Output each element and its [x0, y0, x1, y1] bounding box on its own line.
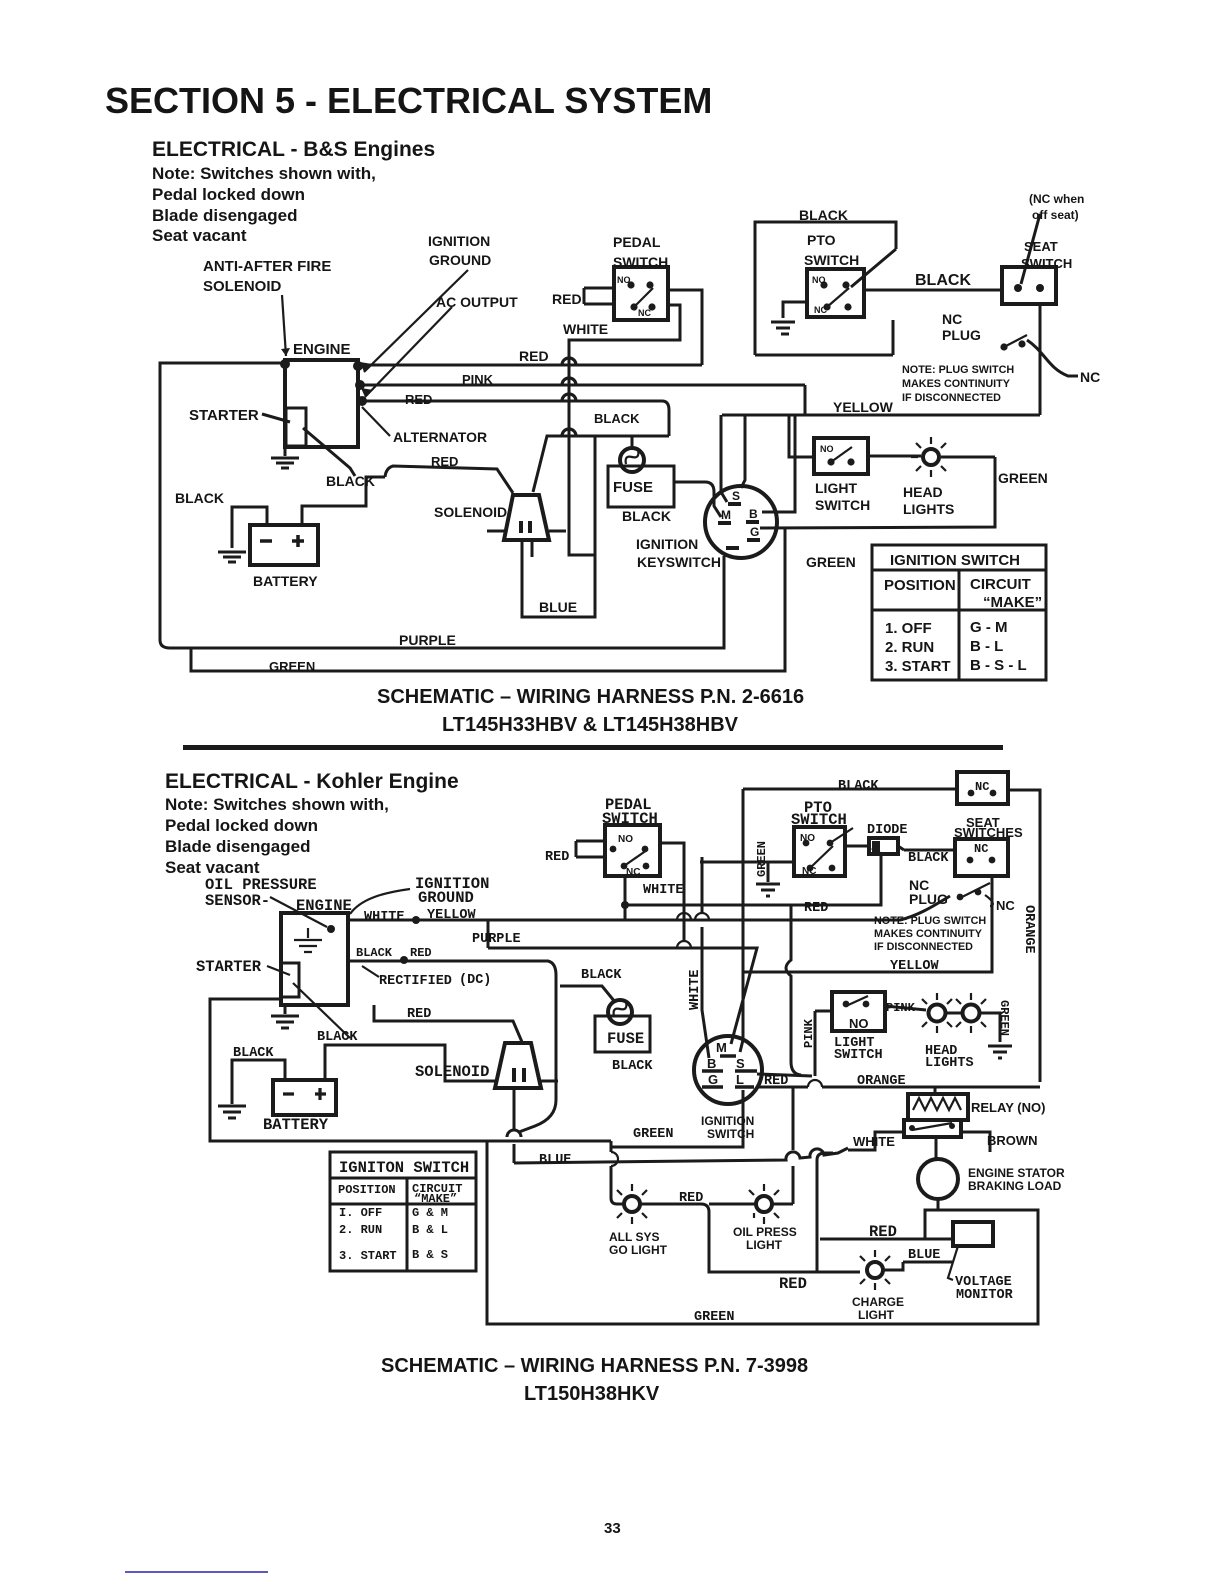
svg-text:KEYSWITCH: KEYSWITCH [637, 554, 721, 570]
svg-text:ORANGE: ORANGE [1021, 905, 1036, 954]
svg-text:GREEN: GREEN [755, 841, 769, 877]
svg-text:PINK: PINK [802, 1018, 816, 1048]
svg-text:RECTIFIED: RECTIFIED [379, 974, 452, 989]
svg-text:NC: NC [638, 308, 651, 318]
svg-text:LIGHTS: LIGHTS [925, 1056, 974, 1071]
svg-text:FUSE: FUSE [613, 479, 653, 496]
svg-text:WHITE: WHITE [563, 321, 608, 337]
svg-text:LT145H33HBV & LT145H38HBV: LT145H33HBV & LT145H38HBV [442, 714, 739, 736]
svg-text:B - S - L: B - S - L [970, 657, 1027, 674]
svg-text:SEAT: SEAT [1024, 239, 1058, 254]
svg-text:LIGHT: LIGHT [815, 480, 857, 496]
svg-text:AC OUTPUT: AC OUTPUT [436, 294, 518, 310]
svg-text:BLACK: BLACK [838, 779, 879, 794]
svg-text:IGNITION SWITCH: IGNITION SWITCH [890, 552, 1020, 569]
svg-text:NO: NO [812, 275, 826, 285]
svg-text:LIGHT: LIGHT [746, 1238, 783, 1252]
svg-text:S: S [732, 489, 740, 503]
svg-text:G: G [708, 1072, 718, 1087]
svg-text:MAKES CONTINUITY: MAKES CONTINUITY [902, 378, 1011, 390]
svg-text:BLACK: BLACK [233, 1046, 274, 1061]
svg-text:Pedal locked down: Pedal locked down [165, 816, 318, 835]
svg-text:NO: NO [849, 1016, 869, 1031]
svg-text:FUSE: FUSE [607, 1030, 644, 1048]
svg-text:NC: NC [975, 780, 989, 794]
svg-text:SWITCH: SWITCH [613, 254, 668, 270]
svg-text:BLACK: BLACK [908, 851, 949, 866]
svg-text:RED: RED [552, 291, 582, 307]
svg-text:BLACK: BLACK [594, 411, 640, 426]
svg-text:WHITE: WHITE [643, 883, 684, 898]
svg-text:G: G [750, 525, 759, 539]
svg-text:IGNITION: IGNITION [701, 1114, 754, 1128]
svg-text:GROUND: GROUND [418, 889, 474, 907]
svg-text:Note: Switches shown with,: Note: Switches shown with, [165, 795, 389, 814]
svg-text:CHARGE: CHARGE [852, 1295, 904, 1309]
svg-text:ORANGE: ORANGE [857, 1074, 906, 1089]
svg-text:POSITION: POSITION [338, 1183, 396, 1197]
svg-text:NC: NC [1080, 369, 1100, 385]
svg-text:GREEN: GREEN [269, 659, 315, 674]
svg-text:L: L [736, 1072, 744, 1087]
svg-text:NC: NC [942, 311, 962, 327]
svg-text:CIRCUIT: CIRCUIT [970, 576, 1031, 593]
svg-text:PEDAL: PEDAL [613, 234, 661, 250]
svg-text:BLACK: BLACK [915, 272, 971, 289]
svg-text:OIL PRESS: OIL PRESS [733, 1225, 797, 1239]
svg-text:SWITCH: SWITCH [804, 252, 859, 268]
svg-text:3. START: 3. START [339, 1249, 397, 1263]
svg-text:LT150H38HKV: LT150H38HKV [524, 1383, 660, 1405]
svg-text:RED: RED [804, 901, 828, 916]
svg-text:SCHEMATIC – WIRING HARNESS P.N: SCHEMATIC – WIRING HARNESS P.N. 7-3998 [381, 1355, 808, 1377]
svg-text:Seat vacant: Seat vacant [152, 226, 247, 245]
svg-text:I. OFF: I. OFF [339, 1206, 382, 1220]
svg-text:BLACK: BLACK [799, 207, 848, 223]
svg-text:PINK: PINK [886, 1001, 916, 1015]
svg-text:G & M: G & M [412, 1206, 448, 1220]
svg-text:NC: NC [626, 867, 640, 878]
svg-text:NC: NC [802, 866, 816, 877]
svg-text:“MAKE”: “MAKE” [414, 1192, 457, 1206]
svg-text:WHITE: WHITE [364, 910, 405, 925]
svg-text:33: 33 [604, 1520, 621, 1537]
svg-text:BLACK: BLACK [326, 473, 375, 489]
svg-text:NO: NO [618, 834, 633, 845]
svg-text:(NC when: (NC when [1029, 192, 1084, 206]
svg-text:ENGINE: ENGINE [296, 897, 352, 915]
svg-text:NC: NC [814, 305, 827, 315]
svg-text:BLACK: BLACK [317, 1030, 358, 1045]
svg-text:Note: Switches shown with,: Note: Switches shown with, [152, 164, 376, 183]
svg-text:LIGHT: LIGHT [858, 1308, 895, 1322]
svg-text:STARTER: STARTER [189, 407, 259, 424]
svg-text:RED: RED [431, 454, 458, 469]
svg-text:2. RUN: 2. RUN [339, 1223, 382, 1237]
svg-text:IGNITION: IGNITION [636, 536, 698, 552]
svg-text:GREEN: GREEN [806, 554, 856, 570]
svg-text:DIODE: DIODE [867, 823, 908, 838]
svg-text:off seat): off seat) [1032, 208, 1079, 222]
svg-text:RED: RED [410, 946, 432, 960]
svg-text:IGNITION: IGNITION [428, 233, 490, 249]
svg-text:3. START: 3. START [885, 658, 951, 675]
svg-text:NO: NO [617, 275, 631, 285]
svg-text:NO: NO [820, 444, 834, 454]
svg-text:BLACK: BLACK [612, 1059, 653, 1074]
svg-text:NOTE: PLUG SWITCH: NOTE: PLUG SWITCH [874, 915, 986, 927]
svg-text:SWITCH: SWITCH [791, 811, 847, 829]
svg-text:BLACK: BLACK [622, 508, 671, 524]
svg-text:BATTERY: BATTERY [263, 1116, 329, 1134]
svg-text:GREEN: GREEN [998, 470, 1048, 486]
svg-text:SWITCH: SWITCH [602, 810, 658, 828]
svg-text:B & L: B & L [412, 1223, 448, 1237]
svg-text:1. OFF: 1. OFF [885, 620, 932, 637]
svg-text:MONITOR: MONITOR [956, 1288, 1014, 1303]
svg-text:BLACK: BLACK [356, 946, 393, 960]
svg-text:RED: RED [405, 392, 432, 407]
svg-text:SOLENOID: SOLENOID [434, 504, 507, 520]
svg-text:NOTE: PLUG SWITCH: NOTE: PLUG SWITCH [902, 364, 1014, 376]
svg-text:BLUE: BLUE [908, 1248, 940, 1263]
svg-text:PLUG: PLUG [909, 891, 948, 907]
svg-text:SCHEMATIC – WIRING HARNESS P.N: SCHEMATIC – WIRING HARNESS P.N. 2-6616 [377, 686, 804, 708]
svg-text:B: B [707, 1056, 716, 1071]
svg-text:BLUE: BLUE [539, 599, 577, 615]
svg-text:M: M [721, 508, 731, 522]
svg-text:Blade disengaged: Blade disengaged [152, 206, 297, 225]
svg-text:MAKES CONTINUITY: MAKES CONTINUITY [874, 928, 983, 940]
svg-text:ELECTRICAL - Kohler Engine: ELECTRICAL - Kohler Engine [165, 770, 459, 793]
svg-text:ANTI-AFTER FIRE: ANTI-AFTER FIRE [203, 258, 331, 275]
svg-text:S: S [736, 1056, 745, 1071]
svg-text:G - M: G - M [970, 619, 1008, 636]
svg-text:GREEN: GREEN [694, 1310, 735, 1325]
svg-text:NC: NC [996, 898, 1015, 913]
svg-text:B: B [749, 507, 758, 521]
svg-text:YELLOW: YELLOW [427, 908, 477, 923]
svg-text:RED: RED [779, 1275, 807, 1293]
svg-text:Pedal locked down: Pedal locked down [152, 185, 305, 204]
svg-text:BLUE: BLUE [539, 1153, 571, 1168]
svg-text:NO: NO [800, 833, 815, 844]
svg-text:IF DISCONNECTED: IF DISCONNECTED [874, 941, 973, 953]
svg-text:SOLENOID: SOLENOID [203, 278, 282, 295]
svg-text:GROUND: GROUND [429, 252, 491, 268]
svg-text:ENGINE: ENGINE [293, 341, 351, 358]
svg-text:ALTERNATOR: ALTERNATOR [393, 429, 487, 445]
svg-text:Blade disengaged: Blade disengaged [165, 837, 310, 856]
svg-text:SOLENOID: SOLENOID [415, 1063, 489, 1081]
svg-text:Seat vacant: Seat vacant [165, 858, 260, 877]
svg-text:YELLOW: YELLOW [890, 959, 940, 974]
svg-text:SWITCHES: SWITCHES [954, 825, 1023, 840]
svg-text:BRAKING LOAD: BRAKING LOAD [968, 1179, 1062, 1193]
svg-text:B & S: B & S [412, 1248, 448, 1262]
svg-text:YELLOW: YELLOW [833, 399, 894, 415]
svg-text:PURPLE: PURPLE [399, 632, 456, 648]
svg-text:PLUG: PLUG [942, 327, 981, 343]
svg-text:ELECTRICAL - B&S Engines: ELECTRICAL - B&S Engines [152, 138, 435, 161]
svg-text:BROWN: BROWN [987, 1133, 1038, 1148]
svg-text:GREEN: GREEN [997, 1000, 1011, 1036]
svg-text:WHITE: WHITE [853, 1134, 895, 1149]
svg-text:SWITCH: SWITCH [815, 497, 870, 513]
svg-text:POSITION: POSITION [884, 577, 956, 594]
svg-text:M: M [716, 1040, 727, 1055]
svg-text:SENSOR-: SENSOR- [205, 892, 270, 910]
svg-text:“MAKE”: “MAKE” [983, 594, 1042, 611]
svg-text:RELAY (NO): RELAY (NO) [971, 1100, 1045, 1115]
svg-text:NC: NC [974, 842, 988, 856]
svg-text:RED: RED [519, 348, 549, 364]
svg-text:SWITCH: SWITCH [707, 1127, 754, 1141]
svg-text:RED: RED [679, 1191, 703, 1206]
svg-text:RED: RED [869, 1223, 897, 1241]
svg-text:WHITE: WHITE [688, 969, 703, 1010]
svg-text:RED: RED [764, 1074, 788, 1089]
svg-text:IF DISCONNECTED: IF DISCONNECTED [902, 392, 1001, 404]
svg-text:BLACK: BLACK [581, 968, 622, 983]
svg-text:SECTION 5 - ELECTRICAL SYSTEM: SECTION 5 - ELECTRICAL SYSTEM [105, 80, 712, 121]
svg-text:ALL SYS: ALL SYS [609, 1230, 659, 1244]
svg-text:PURPLE: PURPLE [472, 932, 521, 947]
svg-text:PINK: PINK [462, 372, 494, 387]
svg-text:(DC): (DC) [459, 973, 491, 988]
svg-text:ENGINE STATOR: ENGINE STATOR [968, 1166, 1065, 1180]
svg-text:SWITCH: SWITCH [1021, 256, 1072, 271]
svg-text:HEAD: HEAD [903, 484, 943, 500]
svg-text:BLACK: BLACK [175, 490, 224, 506]
svg-text:PTO: PTO [807, 232, 836, 248]
svg-text:SWITCH: SWITCH [834, 1048, 883, 1063]
svg-text:BATTERY: BATTERY [253, 573, 318, 589]
svg-text:IGNITON SWITCH: IGNITON SWITCH [339, 1159, 469, 1177]
svg-text:RED: RED [407, 1007, 431, 1022]
svg-text:LIGHTS: LIGHTS [903, 501, 954, 517]
svg-text:GREEN: GREEN [633, 1127, 674, 1142]
svg-text:STARTER: STARTER [196, 958, 262, 976]
svg-text:B - L: B - L [970, 638, 1003, 655]
svg-text:RED: RED [545, 850, 569, 865]
svg-text:GO LIGHT: GO LIGHT [609, 1243, 668, 1257]
svg-text:2. RUN: 2. RUN [885, 639, 934, 656]
